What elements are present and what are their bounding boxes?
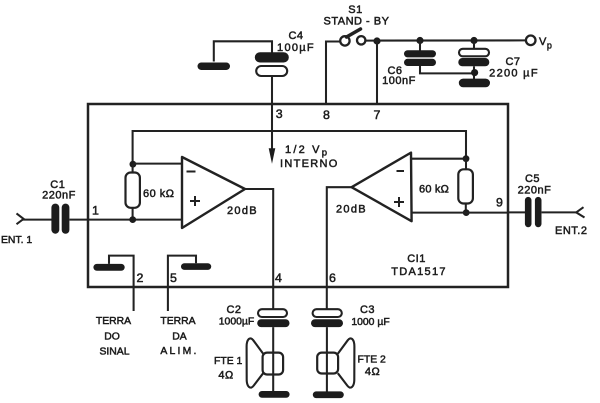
svg-text:1000µF: 1000µF xyxy=(219,317,254,328)
svg-text:FTE 1: FTE 1 xyxy=(214,356,243,367)
wire C4 to pin 3 (1/2 Vp interno) xyxy=(271,76,273,150)
svg-text:C5: C5 xyxy=(525,173,540,185)
wire C1 to pin 1 and op-amp non-inverting input xyxy=(70,219,183,221)
wire C6 to ground node xyxy=(420,66,475,73)
node: R2 top / inverting input right xyxy=(463,155,470,162)
node: switch / pin 7 / Vp rail junction xyxy=(373,37,380,44)
wire feedback bias rail (R1 top to R2 top) xyxy=(133,131,466,164)
svg-text:8: 8 xyxy=(323,108,330,122)
wire left op-amp output to pin 4 and C2 xyxy=(245,189,273,309)
ground (FTE2) xyxy=(313,391,344,398)
svg-text:C2: C2 xyxy=(226,304,241,316)
svg-text:1: 1 xyxy=(92,204,99,218)
wire pin 8 to switch S1 xyxy=(326,42,340,105)
svg-text:FTE 2: FTE 2 xyxy=(358,355,387,366)
node: R1 bottom / pin 1 xyxy=(129,216,136,223)
terminal ENT.1 arrow xyxy=(17,213,24,224)
svg-text:DO: DO xyxy=(104,332,120,343)
svg-text:220nF: 220nF xyxy=(42,190,76,202)
svg-text:Vp: Vp xyxy=(539,36,552,51)
svg-text:SINAL: SINAL xyxy=(99,347,129,358)
wire input to C1 xyxy=(23,219,52,221)
terminal ENT.2 arrow xyxy=(576,207,584,217)
svg-text:ENT.2: ENT.2 xyxy=(555,225,587,237)
wire pin 7 xyxy=(376,41,378,104)
svg-text:TERRA: TERRA xyxy=(160,316,195,327)
svg-text:C7: C7 xyxy=(505,56,520,68)
wire inverting input left xyxy=(133,163,182,165)
node: C6 to rail xyxy=(416,37,423,44)
svg-text:2200 µF: 2200 µF xyxy=(489,68,539,80)
svg-text:60 kΩ: 60 kΩ xyxy=(143,188,175,200)
svg-text:ENT. 1: ENT. 1 xyxy=(1,235,32,246)
wire pin 5 to supply ground xyxy=(168,256,196,311)
wire rail to C6 xyxy=(419,41,421,51)
svg-text:4Ω: 4Ω xyxy=(365,366,380,378)
wire pin 2 to signal ground xyxy=(109,256,134,311)
wire C3 to FTE2 and ground xyxy=(326,327,328,391)
svg-text:TERRA: TERRA xyxy=(96,316,131,327)
op-amp left (20dB) xyxy=(182,157,245,228)
wire C7 to ground xyxy=(473,66,475,79)
svg-text:1000 µF: 1000 µF xyxy=(351,317,389,328)
speaker FTE2 xyxy=(317,338,354,387)
node: R2 bottom / pin 9 xyxy=(463,209,470,216)
wire Vp rail xyxy=(365,39,525,41)
svg-text:STAND - BY: STAND - BY xyxy=(324,16,390,28)
svg-text:5: 5 xyxy=(170,271,177,285)
resistor 60kΩ (left) xyxy=(126,164,140,220)
capacitor C7 xyxy=(458,49,489,67)
svg-text:100nF: 100nF xyxy=(382,75,416,87)
IC CI1 TDA1517 box xyxy=(88,104,508,287)
capacitor C1 xyxy=(51,204,69,234)
wire right op-amp output to pin 6 and C3 xyxy=(327,187,352,309)
op-amp right (20dB) xyxy=(352,153,412,222)
svg-text:4Ω: 4Ω xyxy=(218,370,233,382)
svg-text:S1: S1 xyxy=(348,4,362,16)
node: C7 to rail xyxy=(470,37,477,44)
wire rail to C7 xyxy=(473,41,475,50)
svg-text:3: 3 xyxy=(276,107,283,121)
svg-text:100µF: 100µF xyxy=(277,42,315,54)
svg-text:2: 2 xyxy=(137,271,144,285)
svg-text:20dB: 20dB xyxy=(336,204,367,216)
svg-text:6: 6 xyxy=(329,271,336,285)
ground (signal, pin 2) xyxy=(93,264,124,271)
svg-text:4: 4 xyxy=(275,271,282,285)
ground (FTE1) xyxy=(259,391,290,398)
svg-text:20dB: 20dB xyxy=(227,205,258,217)
wire C2 to FTE1 and ground xyxy=(272,327,274,391)
svg-text:220nF: 220nF xyxy=(518,185,552,197)
arrowhead 1/2 Vp interno xyxy=(269,148,276,164)
speaker FTE1 xyxy=(247,338,284,387)
svg-text:TDA1517: TDA1517 xyxy=(391,266,447,278)
ground (C6/C7) xyxy=(459,79,490,88)
svg-text:60 kΩ: 60 kΩ xyxy=(419,184,449,196)
svg-text:CI1: CI1 xyxy=(407,253,426,265)
svg-text:C3: C3 xyxy=(360,304,375,316)
switch S1 xyxy=(340,29,365,46)
wire pin 9 to op-amp non-inverting input xyxy=(412,212,508,214)
svg-text:DA: DA xyxy=(172,332,187,343)
wire ground to C4 top plate xyxy=(214,41,272,61)
svg-text:9: 9 xyxy=(496,196,503,210)
capacitor C3 xyxy=(311,309,343,327)
wire pin 9 to C5 xyxy=(508,211,525,213)
capacitor C5 xyxy=(525,197,542,227)
ground (C4 negative) xyxy=(198,63,231,71)
node: C6/C7 ground junction xyxy=(471,69,478,76)
wire inverting input right xyxy=(411,158,466,160)
node: R1 top / inverting input left xyxy=(130,161,137,168)
capacitor C4 xyxy=(255,52,289,76)
capacitor C6 xyxy=(404,50,436,66)
wire C5 to ENT.2 xyxy=(542,211,577,213)
svg-text:INTERNO: INTERNO xyxy=(280,158,339,170)
terminal Vp xyxy=(526,36,536,46)
resistor 60kΩ (right) xyxy=(458,159,473,213)
svg-text:C4: C4 xyxy=(288,30,303,42)
svg-text:7: 7 xyxy=(374,108,381,122)
svg-text:ALIM.: ALIM. xyxy=(160,346,198,357)
ground (supply, pin 5) xyxy=(181,263,211,270)
svg-text:1/2 Vp: 1/2 Vp xyxy=(285,144,329,159)
capacitor C2 xyxy=(257,309,289,327)
